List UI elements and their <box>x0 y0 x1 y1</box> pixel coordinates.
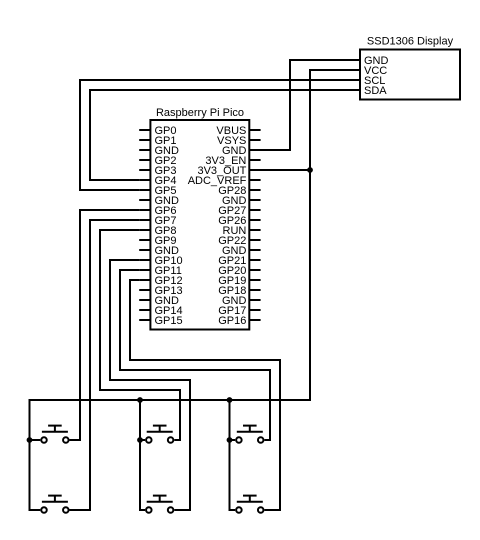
pushbutton SW5 <box>146 496 173 513</box>
U1 right pin 26 GP20 <box>218 265 260 277</box>
U1 left pin 18 GND <box>139 295 179 307</box>
U1 right pin 33 GND <box>222 195 261 207</box>
U1 right pin 34 GP28 <box>218 185 260 197</box>
U2 pin 3 SCL <box>350 75 386 87</box>
wire net 3V3: U2 VCC down right side to bottom supply rail, left end down to SW4 <box>30 70 361 510</box>
pushbutton SW2 <box>146 426 173 443</box>
U1 left pin 6 GP4 <box>139 175 176 187</box>
svg-text:GP16: GP16 <box>218 315 246 327</box>
pushbutton SW3 <box>236 426 263 443</box>
U1 right pin 36 3V3_OUT <box>197 165 260 177</box>
wire net SCL: U2 SCL to U1 GP5 <box>80 80 360 190</box>
U1 right pin 32 GP27 <box>218 205 260 217</box>
U1 left pin 7 GP5 <box>139 185 176 197</box>
wire net GP6: U1 GP6 to SW1 right terminal <box>70 210 140 440</box>
wire net SDA: U2 SDA to U1 GP4 <box>90 90 360 180</box>
U1 left pin 10 GP7 <box>139 215 176 227</box>
U1 left pin 8 GND <box>139 195 179 207</box>
display U2 SSD1306 body <box>360 50 460 100</box>
junction dot rail/col3 at (229.5,400) <box>227 397 233 403</box>
svg-text:SDA: SDA <box>364 85 387 97</box>
U1 right pin 38 GND <box>222 145 261 157</box>
junction dot rail/SW1 at (29.5,440) <box>27 437 33 443</box>
U1 left pin 3 GND <box>139 145 179 157</box>
pushbutton SW4 <box>41 496 68 513</box>
junction dot 3V3 at (310,170) <box>307 167 313 173</box>
U1 left pin 2 GP1 <box>139 135 176 147</box>
U1 right pin 27 GP21 <box>218 255 260 267</box>
U1 right pin 37 3V3_EN <box>205 155 260 167</box>
wire net 3V3 branch: column 2 to SW2 left terminal <box>140 439 145 441</box>
U2 pin 4 SDA <box>350 85 388 97</box>
U1 right pin 31 GP26 <box>218 215 260 227</box>
U1 right pin 23 GND <box>222 295 261 307</box>
U2 pin 1 GND <box>350 55 389 67</box>
wire net GP8: U1 GP8 to SW2 right terminal <box>100 230 180 440</box>
U2 pin 2 VCC <box>350 65 388 77</box>
U1 left pin 4 GP2 <box>139 155 176 167</box>
wire net 3V3 branch: U1 3V3_OUT stub to junction <box>249 169 310 171</box>
wire net 3V3 branch: rail down column 3 to SW6 left terminal <box>230 400 236 510</box>
U1 right pin 25 GP19 <box>218 275 260 287</box>
wire net GP12: U1 GP12 to SW6 right terminal <box>130 280 280 510</box>
U1 left pin 20 GP15 <box>139 315 182 327</box>
U1 left pin 14 GP10 <box>139 255 182 267</box>
U1 left pin 1 GP0 <box>139 125 176 137</box>
U1 left pin 17 GP13 <box>139 285 182 297</box>
U1 right pin 39 VSYS <box>217 135 261 147</box>
U1 right pin 22 GP17 <box>218 305 260 317</box>
junction dot rail/col2 at (140,400) <box>137 397 143 403</box>
U1 right pin 40 VBUS <box>216 125 260 137</box>
pushbutton SW1 <box>41 426 68 443</box>
wire net 3V3 branch: rail junction to SW1 left terminal <box>30 439 41 441</box>
mcu U1 Raspberry Pi Pico body <box>150 120 249 330</box>
U1 left pin 16 GP12 <box>139 275 182 287</box>
U1 left pin 12 GP9 <box>139 235 176 247</box>
U1 right pin 35 ADC_VREF <box>188 175 261 187</box>
U1 left pin 11 GP8 <box>139 225 176 237</box>
U1 right pin 21 GP16 <box>218 315 260 327</box>
wire net 3V3 branch: column 3 to SW3 left terminal <box>230 439 236 441</box>
wire net GP11: U1 GP11 to SW3 right terminal <box>120 270 270 440</box>
wire net GP10: U1 GP10 to SW5 right terminal <box>110 260 190 510</box>
U1 right pin 29 GP22 <box>218 235 260 247</box>
U1 right pin 24 GP18 <box>218 285 260 297</box>
U1 right pin 30 RUN <box>223 225 261 237</box>
pushbutton SW6 <box>236 496 263 513</box>
U1 left pin 9 GP6 <box>139 205 176 217</box>
U1 left pin 19 GP14 <box>139 305 182 317</box>
U1 left pin 13 GND <box>139 245 179 257</box>
junction dot col2/SW2 at (140,440) <box>137 437 143 443</box>
junction dot col3/SW3 at (229.5,440) <box>227 437 233 443</box>
svg-text:Raspberry Pi Pico: Raspberry Pi Pico <box>156 107 244 119</box>
U1 left pin 15 GP11 <box>139 265 182 277</box>
wire net GP7: U1 GP7 to SW4 right terminal <box>70 220 140 510</box>
U1 right pin 28 GND <box>222 245 261 257</box>
svg-text:SSD1306 Display: SSD1306 Display <box>367 36 454 48</box>
U1 left pin 5 GP3 <box>139 165 176 177</box>
wire net 3V3 branch: rail down column 2 to SW5 left terminal <box>140 400 145 510</box>
svg-text:GP15: GP15 <box>155 315 183 327</box>
wire net GND: U2 GND to U1 GND (right pin 3) <box>249 60 360 150</box>
